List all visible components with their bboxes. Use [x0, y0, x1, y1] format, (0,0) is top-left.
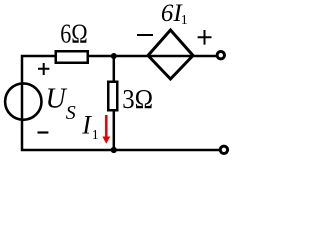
svg-text:1: 1	[181, 13, 188, 28]
svg-text:1: 1	[92, 128, 99, 143]
svg-text:U: U	[46, 84, 68, 115]
svg-text:I: I	[81, 110, 92, 139]
svg-text:6Ω: 6Ω	[60, 19, 87, 49]
svg-text:S: S	[66, 102, 76, 124]
svg-text:3Ω: 3Ω	[122, 84, 153, 114]
